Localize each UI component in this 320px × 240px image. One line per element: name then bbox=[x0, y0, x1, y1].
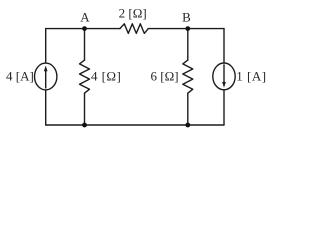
wire: resistor R2 right lead to node B bbox=[148, 28, 188, 30]
current source I1 (4 A, arrow up) bbox=[35, 63, 57, 90]
wire: resistor R3 to bottom rail bbox=[187, 93, 189, 125]
wire: node A down to resistor R1 bbox=[84, 29, 86, 60]
svg-text:A: A bbox=[80, 9, 90, 24]
junction dot bottom-right (under B) bbox=[185, 123, 190, 128]
svg-text:1 [A]: 1 [A] bbox=[236, 69, 266, 84]
wire top-left: left branch top corner to node A bbox=[46, 28, 85, 30]
wire: bottom rail bbox=[46, 124, 224, 126]
resistor R3 6 ohm (vertical zigzag under node B) bbox=[183, 60, 193, 93]
wire: node A to resistor R2 left lead bbox=[85, 28, 120, 30]
junction dot bottom-left (under A) bbox=[82, 123, 87, 128]
node B junction dot (top) bbox=[185, 26, 190, 31]
svg-text:6 [Ω]: 6 [Ω] bbox=[151, 69, 179, 84]
wire: node B to top-right corner bbox=[188, 28, 224, 30]
wire: node B down to resistor R3 bbox=[187, 29, 189, 60]
node A junction dot (top) bbox=[82, 26, 87, 31]
wire: resistor R1 to bottom rail bbox=[84, 93, 86, 125]
resistor R2 2 ohm (horizontal zigzag between A and B) bbox=[120, 24, 148, 34]
svg-text:2 [Ω]: 2 [Ω] bbox=[119, 5, 147, 20]
wire: right vertical branch (through source I2) bbox=[223, 29, 225, 125]
current source I2 (1 A, arrow down) bbox=[213, 63, 235, 90]
resistor R1 4 ohm (vertical zigzag under node A) bbox=[80, 60, 90, 93]
svg-text:4 [Ω]: 4 [Ω] bbox=[91, 69, 121, 84]
svg-text:B: B bbox=[182, 9, 191, 24]
svg-text:4 [A]: 4 [A] bbox=[6, 69, 34, 84]
wire: left vertical branch (through source I1) bbox=[45, 29, 47, 125]
